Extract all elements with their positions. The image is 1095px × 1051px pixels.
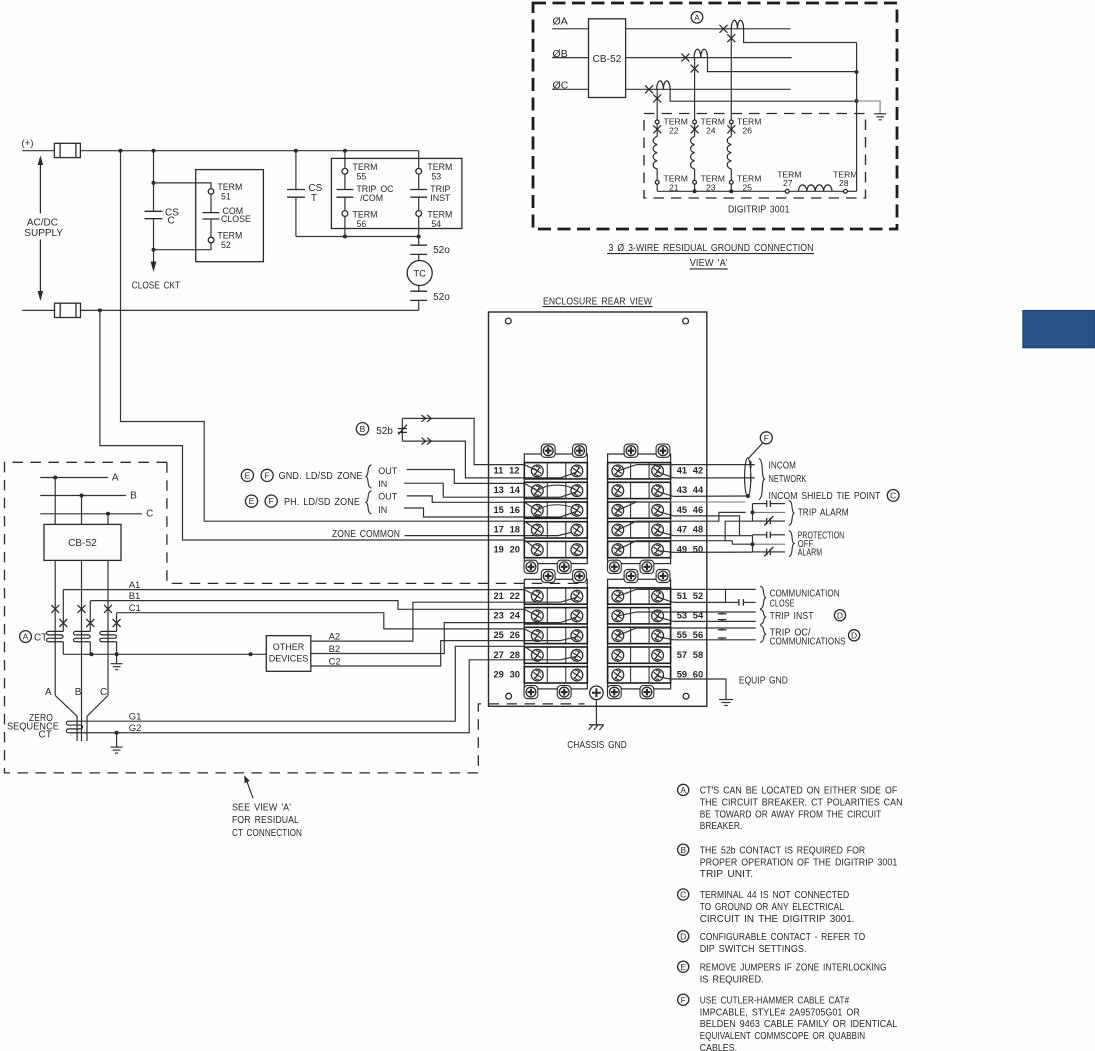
fuse top xyxy=(54,143,80,157)
note balloon F xyxy=(678,994,689,1005)
wire 49 feed xyxy=(618,541,637,550)
contact COMMUNICATION CLOSE xyxy=(725,589,727,602)
box trip switches TERM 53-56 xyxy=(331,158,462,228)
svg-text:CLOSE CKT: CLOSE CKT xyxy=(132,281,181,292)
svg-text:CABLES.: CABLES. xyxy=(700,1043,737,1051)
contact group TRIP ALARM xyxy=(752,504,754,521)
terminal TERM 24 (view A) xyxy=(693,120,697,124)
svg-text:15 16: 15 16 xyxy=(494,505,520,515)
terminal block 21-30 body xyxy=(524,579,587,689)
balloon F (gnd zone) xyxy=(261,469,273,481)
svg-text:51: 51 xyxy=(221,192,231,202)
wire phase C in xyxy=(40,513,142,515)
balloon D (trip inst) xyxy=(834,610,845,621)
terminal TERM 25 (view A) xyxy=(729,180,733,184)
terminal screws 21-30 xyxy=(531,590,543,602)
svg-text:EQUIVALENT COMMSCOPE OR QUABBI: EQUIVALENT COMMSCOPE OR QUABBIN xyxy=(700,1031,866,1042)
svg-text:F: F xyxy=(681,995,686,1005)
wire ph zone out to terminal 15 xyxy=(407,496,525,502)
mounting hole bottom-left xyxy=(506,693,512,699)
wire 44 to shield tie point xyxy=(658,492,674,497)
contact TRIP OC/COMMUNICATIONS xyxy=(722,627,756,629)
wire bottom supply rail left stub xyxy=(22,309,54,311)
wire top rail corner into TERM 53 xyxy=(418,151,420,169)
svg-text:54: 54 xyxy=(431,219,441,229)
wire right bus (view A) xyxy=(856,43,858,192)
terminal TERM 27 (view A) xyxy=(785,189,789,193)
svg-text:24: 24 xyxy=(706,125,716,135)
svg-text:E: E xyxy=(245,470,251,480)
jumper 15-16 (removable) xyxy=(537,505,577,511)
wire 48 to protection top branch xyxy=(658,531,674,535)
wire 45 open end xyxy=(618,502,637,510)
svg-text:TERMINAL 44 IS NOT CONNECTED: TERMINAL 44 IS NOT CONNECTED xyxy=(700,890,850,901)
CT polarity X marks lower (taps) xyxy=(59,619,67,627)
capacitor CS C xyxy=(145,210,163,212)
svg-text:CLOSE: CLOSE xyxy=(770,599,795,610)
ground chassis (hatch) xyxy=(589,724,604,726)
svg-text:OUT: OUT xyxy=(378,492,398,502)
svg-text:TRIP UNIT.: TRIP UNIT. xyxy=(700,869,753,880)
svg-text:OTHER: OTHER xyxy=(273,642,305,652)
wire CT B secondary tap down (view A) xyxy=(694,58,696,121)
svg-text:B: B xyxy=(130,490,137,501)
terminal block 41-50 body xyxy=(608,454,671,564)
mounting hole bottom-right xyxy=(683,693,689,699)
note balloon C xyxy=(678,889,689,900)
svg-text:DIGITRIP 3001: DIGITRIP 3001 xyxy=(728,204,790,215)
svg-text:41 42: 41 42 xyxy=(677,466,703,476)
svg-text:CB-52: CB-52 xyxy=(593,54,622,65)
wire to TERM 52 xyxy=(154,243,212,250)
contact 52o lower xyxy=(418,286,420,292)
wire phase A in xyxy=(40,477,108,479)
svg-text:C: C xyxy=(890,490,896,500)
wire phase A lead-in xyxy=(552,28,588,30)
contact TRIP INST xyxy=(418,174,420,189)
wire 54 xyxy=(658,617,674,622)
terminal block 51-60 mounting screws xyxy=(624,569,638,582)
wire 51 to communication close xyxy=(618,589,637,596)
svg-text:21 22: 21 22 xyxy=(494,591,520,601)
svg-text:ØB: ØB xyxy=(553,48,568,60)
note balloon D xyxy=(678,931,689,942)
svg-text:B: B xyxy=(680,845,686,855)
svg-text:A: A xyxy=(45,687,52,698)
svg-text:C: C xyxy=(680,890,686,900)
wire B2 to terminal 24 xyxy=(311,623,561,654)
svg-text:TRIP ALARM: TRIP ALARM xyxy=(798,507,849,518)
wire 52b upper to terminal 11 xyxy=(402,418,524,464)
mounting hole top-right xyxy=(683,318,689,324)
wire G1 to terminal 27 xyxy=(87,646,524,721)
terminal block 11-20 mounting screws xyxy=(541,444,555,457)
box OTHER DEVICES xyxy=(266,636,311,672)
svg-text:CIRCUIT IN THE DIGITRIP 3001.: CIRCUIT IN THE DIGITRIP 3001. xyxy=(700,914,855,925)
wire 47 to trip alarm common xyxy=(618,521,637,530)
terminal screws 51-60 xyxy=(612,590,624,602)
wire digitrip bottom rail (view A) xyxy=(657,190,785,192)
contact 52b (NC with slash) xyxy=(401,418,403,441)
svg-text:C: C xyxy=(168,215,175,226)
svg-text:IN: IN xyxy=(378,505,387,515)
svg-text:SEE VIEW 'A': SEE VIEW 'A' xyxy=(232,802,291,813)
svg-text:USE CUTLER-HAMMER CABLE CAT#: USE CUTLER-HAMMER CABLE CAT# xyxy=(700,995,850,1006)
svg-text:27 28: 27 28 xyxy=(494,650,520,660)
balloon B xyxy=(356,423,368,435)
wire bottom supply rail xyxy=(81,309,419,311)
wire trip common bottom xyxy=(296,236,419,238)
screw chassis gnd xyxy=(590,686,604,700)
CT phase C primary coil (view A) xyxy=(657,81,670,89)
wire phase C lead-in xyxy=(552,88,588,90)
terminal TERM 54 xyxy=(416,211,422,217)
svg-text:TERM: TERM xyxy=(217,231,242,241)
CT secondary polarity X below TERM 26 xyxy=(730,124,732,137)
svg-text:REMOVE JUMPERS IF ZONE INTERLO: REMOVE JUMPERS IF ZONE INTERLOCKING xyxy=(700,962,887,973)
terminal TERM 28 (view A) xyxy=(844,189,848,193)
svg-text:EQUIP GND: EQUIP GND xyxy=(739,675,788,686)
wire CT C return lead (view A) xyxy=(670,89,857,101)
CT secondary polarity X below TERM 22 xyxy=(656,124,658,137)
terminal TERM 56 xyxy=(342,211,348,217)
node junction dots bottom rail xyxy=(693,189,697,193)
terminal block 21-30 mounting screws xyxy=(541,569,555,582)
wire phase A (view A) xyxy=(626,28,791,30)
jumper 13-14 (removable) xyxy=(537,485,577,491)
wire B1 to terminal 23 xyxy=(90,601,524,610)
CT phase A primary coil (view A) xyxy=(731,20,743,28)
terminal TERM 53 xyxy=(416,168,422,174)
svg-text:THE 52b CONTACT IS REQUIRED FO: THE 52b CONTACT IS REQUIRED FOR xyxy=(700,845,866,856)
svg-text:F: F xyxy=(264,470,269,480)
contact group PROTECTION OFF ALARM xyxy=(752,535,754,552)
node shield tie dot xyxy=(746,494,750,498)
dashed boundary lower-left CT section xyxy=(5,462,585,773)
svg-text:IS REQUIRED.: IS REQUIRED. xyxy=(700,974,764,985)
wire riser 1 from + rail to terminal 17 xyxy=(121,151,525,522)
capacitor CS T xyxy=(287,189,305,191)
terminal screws 11-20 xyxy=(531,465,543,477)
terminal TERM 26 (view A) xyxy=(729,120,733,124)
svg-text:D: D xyxy=(837,610,843,620)
svg-text:26: 26 xyxy=(743,125,753,135)
svg-text:43 44: 43 44 xyxy=(677,485,704,495)
wire trip alarm NC link xyxy=(725,521,752,541)
breaker CB-52 (lower left) xyxy=(54,478,56,525)
wire CT A secondary tap down (view A) xyxy=(730,29,732,120)
svg-text:D: D xyxy=(680,931,686,941)
CT phase A polarity X (view A) xyxy=(720,25,728,33)
wire A1 to terminal 21 xyxy=(63,589,524,591)
wire 46 to protection top xyxy=(658,511,674,516)
terminal TERM 23 (view A) xyxy=(693,180,697,184)
tick marks on pair xyxy=(750,461,752,469)
ground on G2 xyxy=(115,731,119,735)
svg-text:AC/DC: AC/DC xyxy=(27,218,58,229)
CT phase B polarity X (view A) xyxy=(681,54,689,62)
wire G2 to terminal 28 xyxy=(87,660,561,733)
svg-text:53: 53 xyxy=(431,172,441,182)
wire 60 to equip gnd xyxy=(658,676,670,679)
wire phase verticals below CB-52 xyxy=(54,560,56,695)
svg-text:55 56: 55 56 xyxy=(677,630,703,640)
svg-text:B: B xyxy=(75,687,82,698)
note balloon A xyxy=(678,784,689,795)
arrow CLOSE CKT xyxy=(153,250,155,264)
wire bottom-entry diagonals left blocks xyxy=(561,472,577,478)
svg-text:C: C xyxy=(146,509,153,520)
svg-text:F: F xyxy=(269,496,274,506)
svg-text:52b: 52b xyxy=(376,426,393,437)
wire CT A return lead (view A) xyxy=(744,29,857,43)
wire riser CS C xyxy=(153,151,155,212)
fuse bottom xyxy=(55,303,81,317)
svg-text:DIP SWITCH SETTINGS.: DIP SWITCH SETTINGS. xyxy=(700,944,807,955)
svg-text:FOR RESIDUAL: FOR RESIDUAL xyxy=(232,815,299,826)
svg-text:GND. LD/SD ZONE: GND. LD/SD ZONE xyxy=(279,471,363,482)
wire to TERM 51 xyxy=(154,183,212,189)
wire ph zone in to terminal 16 xyxy=(404,508,561,517)
svg-text:56: 56 xyxy=(357,219,367,229)
svg-text:C: C xyxy=(100,687,107,698)
contact TRIP OC/COM xyxy=(344,174,346,189)
svg-text:45 46: 45 46 xyxy=(677,505,703,515)
svg-text:A: A xyxy=(112,472,119,483)
svg-text:TERM: TERM xyxy=(217,182,242,192)
leader line F xyxy=(749,443,764,459)
svg-text:47 48: 47 48 xyxy=(677,525,703,535)
svg-text:D: D xyxy=(851,630,857,640)
balloon A (CT note) xyxy=(20,631,32,643)
svg-text:CT CONNECTION: CT CONNECTION xyxy=(232,828,302,839)
svg-text:INCOM: INCOM xyxy=(769,460,797,471)
contact COM CLOSE xyxy=(210,194,212,212)
svg-text:CHASSIS GND: CHASSIS GND xyxy=(567,740,627,751)
digitrip 3001 dashed box xyxy=(644,114,866,199)
ground (view A) xyxy=(874,113,886,115)
svg-text:INCOM SHIELD TIE POINT: INCOM SHIELD TIE POINT xyxy=(769,491,881,502)
svg-text:CT: CT xyxy=(34,632,47,643)
svg-text:BREAKER.: BREAKER. xyxy=(700,821,743,832)
CT secondary polarity X below TERM 24 xyxy=(694,124,696,137)
svg-text:17 18: 17 18 xyxy=(494,525,520,535)
wire top supply rail xyxy=(80,150,418,152)
balloon F (ph zone) xyxy=(265,495,277,507)
terminal TERM 21 (view A) xyxy=(655,180,659,184)
wire 52b lower to terminal 12 xyxy=(402,441,560,478)
svg-text:ZONE COMMON: ZONE COMMON xyxy=(332,529,400,540)
balloon D (trip oc) xyxy=(849,630,860,641)
shielded twisted pair symbol xyxy=(745,458,751,497)
svg-text:52o: 52o xyxy=(433,245,450,256)
svg-text:IN: IN xyxy=(378,479,387,489)
svg-text:25 26: 25 26 xyxy=(494,630,520,640)
wire phase B (view A) xyxy=(626,57,792,59)
svg-text:OUT: OUT xyxy=(378,466,398,476)
zero sequence CT coil (flat winding) xyxy=(66,721,87,733)
svg-text:11 12: 11 12 xyxy=(494,466,520,476)
svg-text:DEVICES: DEVICES xyxy=(269,654,309,664)
svg-text:E: E xyxy=(249,496,255,506)
balloon F (incom cable) xyxy=(760,432,772,444)
svg-text:CT: CT xyxy=(39,730,53,741)
view A outer dashed border xyxy=(533,3,897,229)
wire phase B in xyxy=(40,495,126,497)
svg-text:A: A xyxy=(680,785,686,795)
svg-text:27: 27 xyxy=(783,178,793,188)
wire CT tap B xyxy=(89,601,91,632)
svg-text:T: T xyxy=(311,193,317,204)
contact TRIP INST xyxy=(722,611,756,613)
svg-text:VIEW 'A': VIEW 'A' xyxy=(690,258,728,269)
svg-text:E: E xyxy=(680,962,686,972)
wire entry diagonals left blocks xyxy=(524,465,537,471)
svg-text:ALARM: ALARM xyxy=(798,548,823,559)
wire phase C (view A) xyxy=(626,88,791,90)
svg-text:BE TOWARD OR AWAY FROM THE CIR: BE TOWARD OR AWAY FROM THE CIRCUIT xyxy=(700,809,882,820)
wire gnd zone in to terminal 14 xyxy=(404,483,561,497)
svg-text:PROPER OPERATION OF THE DIGITR: PROPER OPERATION OF THE DIGITRIP 3001 xyxy=(700,857,898,868)
svg-text:CONFIGURABLE CONTACT - REFER T: CONFIGURABLE CONTACT - REFER TO xyxy=(700,932,866,943)
blue sidebar rectangle xyxy=(1023,310,1095,347)
wire gnd zone out to terminal 13 xyxy=(407,470,525,484)
svg-text:13 14: 13 14 xyxy=(494,485,521,495)
svg-text:ENCLOSURE REAR VIEW: ENCLOSURE REAR VIEW xyxy=(543,296,652,307)
svg-text:/COM: /COM xyxy=(360,193,383,203)
svg-text:TRIP INST: TRIP INST xyxy=(770,611,814,622)
terminal TERM 22 (view A) xyxy=(655,120,659,124)
terminal TERM 51 xyxy=(208,189,214,195)
balloon A xyxy=(691,11,703,23)
svg-text:CB-52: CB-52 xyxy=(68,538,97,549)
box close switch TERM 51/52 xyxy=(196,170,264,262)
wire C2 to terminal 26 xyxy=(311,641,561,666)
CT phase C polarity X (view A) xyxy=(645,85,653,93)
wire C1 to terminal 25 xyxy=(117,613,525,629)
enclosure panel xyxy=(489,312,707,706)
inductor secondary coil above TERM 23 xyxy=(691,137,695,169)
terminal TERM 52 xyxy=(208,237,214,243)
wire A2 to terminal 22 xyxy=(311,602,561,641)
svg-text:55: 55 xyxy=(357,172,367,182)
wire protection mid link xyxy=(732,541,752,545)
svg-text:CLOSE: CLOSE xyxy=(221,214,251,224)
CT polarity X marks upper xyxy=(51,605,59,613)
wire 50 to protection bottom xyxy=(658,551,674,553)
wire CT C secondary tap down (view A) xyxy=(656,89,658,120)
svg-text:52o: 52o xyxy=(433,292,450,303)
trip coil TC xyxy=(418,254,420,260)
terminal block 51-60 body xyxy=(608,579,671,689)
mounting hole top-left xyxy=(505,318,511,324)
inductor secondary coil above TERM 25 xyxy=(727,137,731,169)
svg-text:TO GROUND OR ANY ELECTRICAL: TO GROUND OR ANY ELECTRICAL xyxy=(700,902,845,913)
svg-text:PH. LD/SD ZONE: PH. LD/SD ZONE xyxy=(284,497,360,508)
CT coils phase A B C (flat windings) xyxy=(46,631,63,641)
svg-text:COMMUNICATIONS: COMMUNICATIONS xyxy=(770,637,846,648)
svg-text:52: 52 xyxy=(221,240,231,250)
wire zone common to terminal 18 xyxy=(405,531,577,536)
svg-text:TC: TC xyxy=(413,269,426,280)
note balloon B xyxy=(678,844,689,855)
svg-text:29 30: 29 30 xyxy=(494,670,520,680)
svg-text:SUPPLY: SUPPLY xyxy=(24,228,63,239)
wire CT tap C xyxy=(116,613,118,632)
inductor secondary coil above TERM 21 xyxy=(653,137,657,169)
wire CT B return lead (view A) xyxy=(708,58,857,72)
svg-text:23 24: 23 24 xyxy=(494,611,521,621)
wire 52 to close contact xyxy=(658,597,674,602)
svg-text:3 Ø 3-WIRE RESIDUAL GROUND CON: 3 Ø 3-WIRE RESIDUAL GROUND CONNECTION xyxy=(609,243,814,254)
svg-text:(+): (+) xyxy=(22,138,34,149)
svg-text:BELDEN 9463 CABLE FAMILY OR ID: BELDEN 9463 CABLE FAMILY OR IDENTICAL xyxy=(700,1019,898,1030)
svg-text:CT'S CAN BE LOCATED ON EITHER: CT'S CAN BE LOCATED ON EITHER SIDE OF xyxy=(700,786,898,797)
ground equip gnd xyxy=(719,699,733,701)
terminal block 11-20 body xyxy=(524,454,587,564)
inductor between TERM 27 and 28 (view A) xyxy=(798,185,832,191)
wire riser CS T xyxy=(295,151,297,190)
note balloon E xyxy=(678,961,689,972)
wire ground tap (view A) xyxy=(857,101,881,114)
svg-text:22: 22 xyxy=(669,125,679,135)
terminal TERM 55 xyxy=(342,168,348,174)
svg-text:IMPCABLE, STYLE# 2A95705G01 OR: IMPCABLE, STYLE# 2A95705G01 OR xyxy=(700,1007,860,1018)
svg-text:NETWORK: NETWORK xyxy=(769,474,807,485)
arrow AC/DC supply range xyxy=(39,159,41,295)
ground CT common xyxy=(116,654,118,663)
leader arrow SEE VIEW A xyxy=(246,779,253,798)
svg-text:A: A xyxy=(23,632,29,642)
wire CT tap A xyxy=(62,590,64,632)
svg-text:ØA: ØA xyxy=(553,16,568,28)
svg-text:A: A xyxy=(694,12,700,22)
balloon C xyxy=(887,490,899,502)
wire riser TERM 55 xyxy=(344,151,346,169)
wire 56 xyxy=(658,637,674,640)
svg-text:INST: INST xyxy=(430,193,451,203)
svg-text:THE CIRCUIT BREAKER. CT POLARI: THE CIRCUIT BREAKER. CT POLARITIES CAN xyxy=(700,797,903,808)
zero sequence CT funnel xyxy=(55,695,77,741)
wire 42 to NETWORK xyxy=(658,472,674,478)
wire chassis gnd xyxy=(595,700,597,725)
brace incom group xyxy=(759,459,765,500)
svg-text:57 58: 57 58 xyxy=(677,650,703,660)
terminal block 41-50 mounting screws xyxy=(624,444,638,457)
balloon E (gnd zone) xyxy=(241,469,253,481)
svg-text:51 52: 51 52 xyxy=(677,591,703,601)
svg-text:19 20: 19 20 xyxy=(494,544,520,554)
contact 52o upper xyxy=(418,237,420,246)
node junction dots on right bus (view A) xyxy=(855,70,859,74)
wire riser 2 from - rail to terminal 19 xyxy=(100,310,524,540)
terminal screws 41-50 xyxy=(612,465,624,477)
wire 53 to trip inst xyxy=(618,612,637,616)
svg-text:59 60: 59 60 xyxy=(677,670,703,680)
wire 55 to trip oc xyxy=(618,628,637,636)
svg-text:B: B xyxy=(360,424,366,434)
svg-text:28: 28 xyxy=(839,178,849,188)
balloon E (ph zone) xyxy=(245,495,257,507)
wire top supply rail left stub xyxy=(22,150,54,152)
wire phase B lead-in xyxy=(552,57,588,59)
wire 41 to INCOM xyxy=(618,465,637,471)
breaker CB-52 (view A) xyxy=(589,19,626,98)
CT phase B primary coil (view A) xyxy=(694,49,707,57)
svg-text:F: F xyxy=(764,433,769,443)
wire CT common to other devices xyxy=(63,653,266,655)
